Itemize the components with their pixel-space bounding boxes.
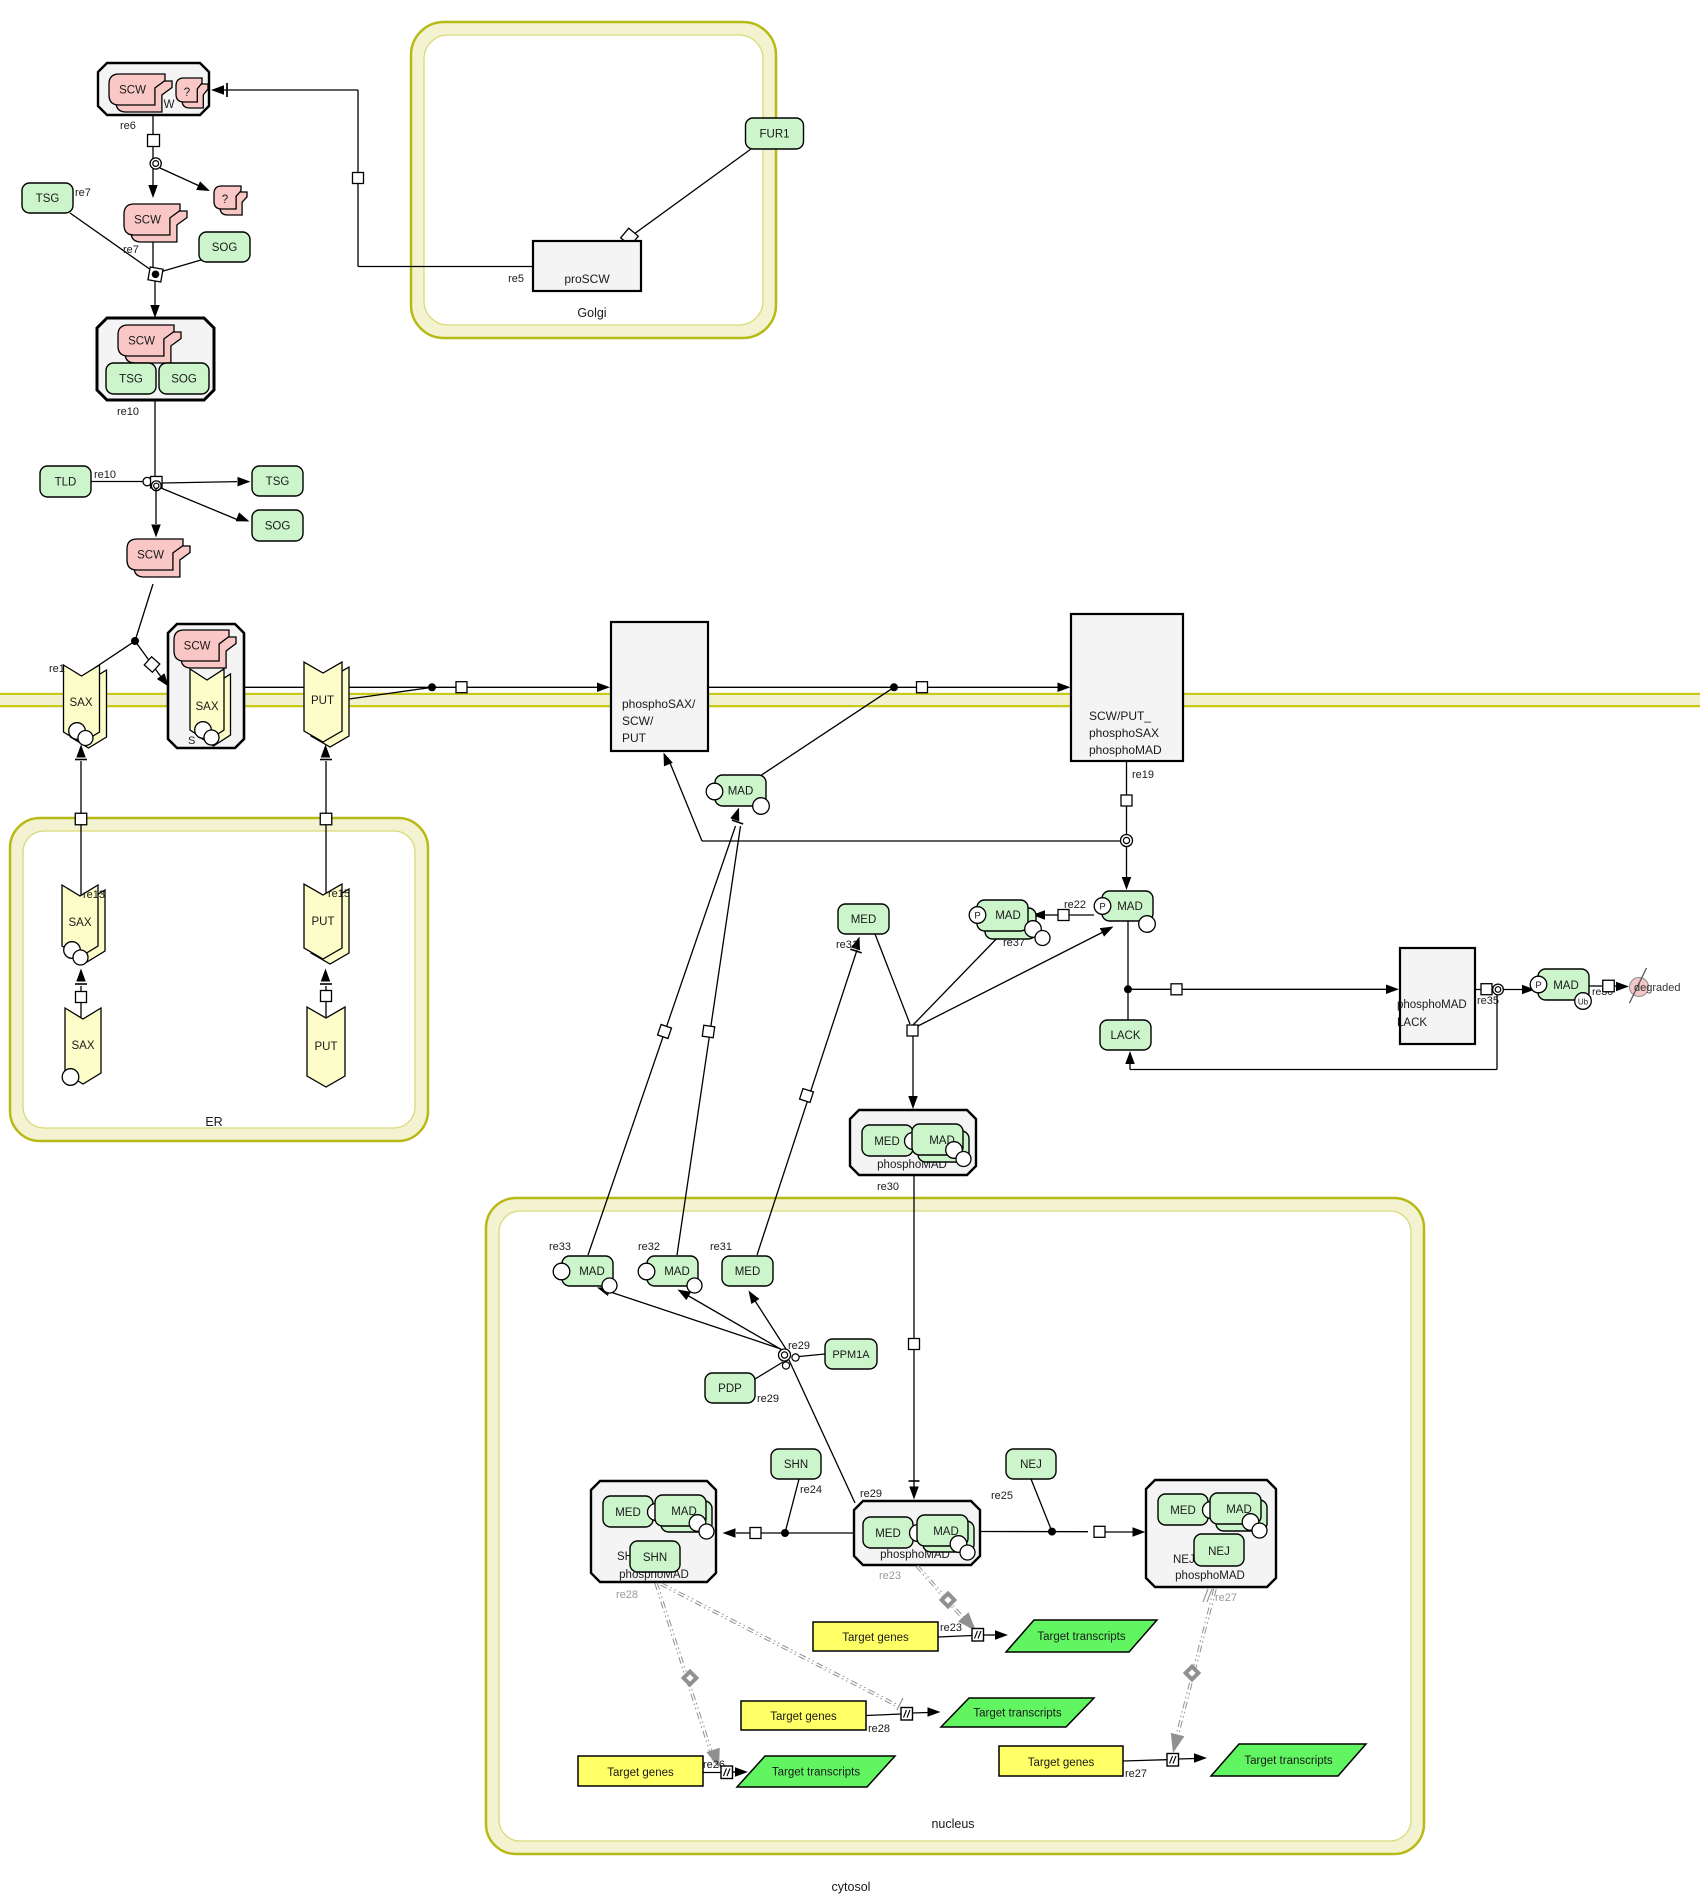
species TLD: [40, 466, 91, 497]
receptor PUT at membrane (dimer): [311, 667, 349, 747]
complex SCW/PUT_phosphoSAX_phosphoMAD: [1071, 614, 1183, 761]
dissociation circle re6: [150, 158, 161, 169]
svg-text:SCW: SCW: [137, 550, 164, 562]
complex SCW_SAX at membrane: [168, 624, 244, 748]
svg-text:re28: re28: [616, 1589, 638, 1601]
svg-text:SCW: SCW: [128, 336, 155, 348]
protein unknown (released): [220, 192, 247, 215]
receptor PUT in ER (single): [307, 1007, 345, 1087]
svg-text:LACK: LACK: [1397, 1017, 1427, 1029]
svg-text:re7: re7: [75, 187, 91, 199]
dissociation circle re29: [779, 1349, 791, 1361]
svg-text:SHN: SHN: [784, 1459, 808, 1471]
svg-text:re32: re32: [638, 1241, 660, 1253]
wire re19 recycle to phosphoSAX/SCW/PUT: [702, 840, 1121, 842]
svg-text:PUT: PUT: [622, 731, 647, 745]
wire re27 transcription activation: [1173, 1589, 1214, 1748]
wire FUR1 catalysis re5: [634, 149, 751, 234]
wire re35 dissociation to ubiquitinated MAD: [1475, 989, 1492, 991]
wire re23 gene to transcript: [938, 1636, 972, 1638]
species NEJ: [1006, 1449, 1056, 1479]
svg-text:re31: re31: [836, 939, 858, 951]
wire re28 transcription activation: [660, 1585, 897, 1707]
wire re10 dissociation: [154, 400, 156, 476]
svg-text:NEJ: NEJ: [1020, 1459, 1042, 1471]
complex phosphoMAD cytosol (MED/MAD): [850, 1110, 976, 1175]
species SOG: [199, 232, 250, 262]
protein SCW homodimer in re6 complex: [116, 81, 172, 112]
svg-text:PUT: PUT: [311, 695, 334, 707]
complex phosphoMAD_LACK box: [1400, 948, 1475, 1044]
species MAD nuclear re32: [647, 1256, 698, 1286]
wire re15 PUT transport in ER: [325, 1002, 327, 1017]
svg-text:ER: ER: [205, 1115, 222, 1129]
wire re26 gene to transcript: [703, 1772, 721, 1774]
complex phosphoMAD nuclear central: [854, 1501, 980, 1565]
svg-text:?: ?: [184, 87, 190, 99]
receptor PUT in ER (dimer): [311, 889, 349, 964]
svg-text:MED: MED: [1170, 1505, 1196, 1517]
gene Target genes re23: [813, 1622, 938, 1651]
rna Target transcripts re27: [1211, 1744, 1366, 1776]
wire re29 dissociation hub: [789, 1360, 855, 1503]
svg-text:PUT: PUT: [315, 1041, 338, 1053]
complex NEJ_phosphoMAD nuclear: [1146, 1480, 1276, 1587]
wire re25 NEJ association: [980, 1531, 1088, 1533]
label re27 grey: [1203, 1589, 1208, 1602]
wire re6 to unknown protein: [160, 168, 206, 189]
junction node re1: [131, 637, 139, 645]
degraded symbol: [1630, 978, 1649, 997]
wire PUT reactant: [342, 687, 432, 700]
protein SCW homodimer (cleaved): [134, 546, 190, 577]
wire re5 proSCW to SCW complex: [358, 266, 533, 268]
wire re34 to phosphoMAD_LACK box: [1128, 988, 1386, 990]
svg-text:SAX: SAX: [71, 1040, 94, 1052]
gene Target genes re27: [999, 1746, 1123, 1776]
svg-text:SAX: SAX: [68, 917, 91, 929]
species TSG: [22, 183, 73, 213]
wire re24 SHN association: [761, 1532, 854, 1534]
svg-text:SCW/: SCW/: [622, 714, 654, 728]
svg-text:P: P: [974, 910, 980, 921]
svg-text:LACK: LACK: [1110, 1030, 1140, 1042]
svg-text:re29: re29: [860, 1488, 882, 1500]
svg-text:Target transcripts: Target transcripts: [1244, 1755, 1332, 1767]
wire re19 dissociation from SCW/PUT complex: [1126, 761, 1128, 835]
svg-text:Target genes: Target genes: [842, 1632, 909, 1644]
wire re14 PUT transport ER to membrane: [325, 825, 327, 894]
species PPM1A: [825, 1339, 877, 1369]
wire re31 nuclear MED export: [757, 950, 857, 1255]
wire re27 gene to transcript: [1123, 1760, 1167, 1761]
svg-text:MED: MED: [875, 1528, 901, 1540]
svg-text:Target genes: Target genes: [770, 1711, 837, 1723]
wire re16 complex+PUT to phosphoSAX/SCW/PUT: [244, 686, 597, 688]
svg-text:re37: re37: [1003, 937, 1025, 949]
compartment Golgi: [411, 22, 776, 338]
svg-text:re5: re5: [508, 273, 524, 285]
svg-text:TSG: TSG: [36, 193, 60, 205]
wire re1 to SCW_SAX complex: [135, 641, 164, 681]
svg-text:re25: re25: [991, 1490, 1013, 1502]
protein unknown in re6 complex: [182, 84, 208, 108]
species MED cytosol: [838, 904, 889, 934]
svg-text:phosphoSAX: phosphoSAX: [1089, 726, 1159, 740]
wire re28 gene to transcript: [866, 1714, 901, 1716]
svg-text:re1: re1: [49, 663, 65, 675]
svg-text:proSCW: proSCW: [564, 272, 610, 286]
svg-text:MAD: MAD: [1553, 980, 1579, 992]
wire PPM1A catalysis re29: [799, 1354, 825, 1357]
species SHN: [771, 1449, 821, 1479]
svg-text:Ub: Ub: [1578, 997, 1589, 1006]
membrane (cytosol top border / plasma membrane): [0, 693, 1700, 695]
species PDP: [705, 1373, 755, 1403]
receptor SAX in ER (dimer): [69, 890, 105, 962]
wire re26 transcription activation: [655, 1583, 713, 1761]
association glyph re7: [148, 267, 163, 282]
svg-text:re10: re10: [94, 469, 116, 481]
compartment nucleus: [486, 1198, 1424, 1854]
svg-text:SAX: SAX: [69, 697, 92, 709]
species MAD nuclear re33: [562, 1256, 613, 1286]
svg-text:SOG: SOG: [171, 374, 197, 386]
svg-text:Target transcripts: Target transcripts: [772, 1767, 860, 1779]
species MED nuclear: [722, 1256, 773, 1286]
species TSG product: [252, 466, 303, 496]
svg-text:phosphoMAD: phosphoMAD: [1397, 999, 1467, 1011]
species proSCW: [533, 241, 641, 291]
wire re10 to SOG: [161, 488, 237, 520]
compartment ER: [10, 818, 428, 1141]
svg-text:PUT: PUT: [312, 916, 335, 928]
svg-text:re6: re6: [120, 120, 136, 132]
svg-text:Target genes: Target genes: [1028, 1757, 1095, 1769]
svg-text:Target transcripts: Target transcripts: [973, 1708, 1061, 1720]
wire re23 transcription activation: [916, 1567, 970, 1628]
catalysis circle TLD: [143, 477, 151, 485]
svg-text:FUR1: FUR1: [759, 129, 789, 141]
wire re6 complex dissociation: [152, 115, 154, 196]
wire re10 to TSG: [162, 482, 237, 483]
svg-text:MAD: MAD: [728, 786, 754, 798]
rna Target transcripts re23: [1006, 1620, 1157, 1652]
svg-text:re35: re35: [1477, 995, 1499, 1007]
receptor SAX in ER (single): [65, 1008, 101, 1084]
wire PDP catalysis re29: [755, 1362, 783, 1379]
svg-text:phosphoSAX/: phosphoSAX/: [622, 697, 696, 711]
species LACK: [1100, 1020, 1151, 1050]
complex re10 SCW/TSG/SOG: [97, 318, 214, 400]
svg-text:TLD: TLD: [55, 477, 77, 489]
wire re30 complex into nucleus: [913, 1175, 915, 1487]
svg-text:re15: re15: [328, 888, 350, 900]
svg-text:nucleus: nucleus: [931, 1817, 974, 1831]
svg-text:S: S: [188, 735, 195, 747]
svg-text:re7: re7: [123, 244, 139, 256]
transport arrow into cytosol MAD: [730, 808, 739, 822]
svg-text:re31: re31: [710, 1241, 732, 1253]
wire re30 association MED + phosphoMAD: [875, 934, 910, 1024]
svg-text:re23: re23: [879, 1570, 901, 1582]
protein SCW homodimer in membrane complex: [181, 637, 236, 668]
svg-text:NEJ: NEJ: [1208, 1546, 1230, 1558]
species SOG product: [252, 510, 303, 541]
svg-text:SCW: SCW: [184, 641, 211, 653]
svg-text:SHN: SHN: [643, 1552, 667, 1564]
process node re10: [151, 476, 163, 488]
svg-text:MAD: MAD: [995, 910, 1021, 922]
svg-text:PDP: PDP: [718, 1383, 742, 1395]
species TSG in complex: [106, 363, 156, 394]
svg-text:SCW/PUT_: SCW/PUT_: [1089, 709, 1151, 723]
gene Target genes re28: [741, 1701, 866, 1730]
svg-text:MED: MED: [735, 1266, 761, 1278]
svg-text:MED: MED: [874, 1136, 900, 1148]
wire re35 recycle to LACK: [1496, 995, 1498, 1070]
svg-text:MAD: MAD: [1117, 901, 1143, 913]
svg-text:SAX: SAX: [195, 701, 218, 713]
svg-text:re28: re28: [868, 1723, 890, 1735]
svg-text:SCW: SCW: [119, 85, 146, 97]
unknown-catalysis glyph re5: [621, 228, 639, 246]
svg-text:phosphoMAD: phosphoMAD: [1175, 1570, 1245, 1582]
rna Target transcripts re26: [737, 1756, 895, 1787]
species MAD cytosol: [715, 775, 766, 806]
species ubiquitinated phosphoMAD: [1538, 969, 1589, 1000]
svg-text:cytosol: cytosol: [832, 1880, 871, 1894]
protein SCW homodimer (free): [131, 211, 187, 242]
dissociation circle re35: [1493, 984, 1504, 995]
wire phosphoMAD to re34 node: [1127, 921, 1129, 1020]
gene Target genes re26: [578, 1756, 703, 1786]
protein SCW homodimer in re10 complex: [125, 332, 181, 363]
junction node re17: [890, 683, 898, 691]
wire re12 SAX transport ER to membrane: [80, 825, 82, 895]
svg-text:Target transcripts: Target transcripts: [1037, 1631, 1125, 1643]
svg-text:re27: re27: [1125, 1768, 1147, 1780]
svg-text:SCW: SCW: [134, 215, 161, 227]
svg-text:re19: re19: [1132, 769, 1154, 781]
svg-text:re30: re30: [877, 1181, 899, 1193]
svg-text:re24: re24: [800, 1484, 822, 1496]
wire re36 degradation: [1589, 985, 1604, 987]
receptor SAX at membrane (dimer): [71, 670, 107, 748]
species phosphoMAD homodimer: [985, 908, 1036, 939]
wire SCW to re1 node: [135, 584, 153, 641]
complex phosphoSAX/SCW/PUT: [611, 622, 708, 751]
junction node re34: [1124, 985, 1132, 993]
svg-text:MED: MED: [851, 914, 877, 926]
wire re13 SAX transport in ER: [80, 1003, 82, 1018]
species phosphoMAD single: [1102, 891, 1153, 921]
junction node re16: [428, 683, 436, 691]
svg-text:re23: re23: [940, 1622, 962, 1634]
svg-text:TSG: TSG: [119, 374, 143, 386]
svg-text:P: P: [1535, 980, 1541, 991]
wire re33 nuclear MAD export: [588, 826, 736, 1255]
wire re17 phosphoSAX/SCW/PUT + MAD to SCW/PUT complex: [708, 686, 1058, 688]
wire re32 nuclear MAD export: [677, 826, 741, 1255]
rna Target transcripts re28: [941, 1698, 1094, 1727]
wire re10 to SCW: [155, 488, 157, 524]
svg-text:re10: re10: [117, 406, 139, 418]
species SOG in complex: [159, 363, 209, 394]
svg-text:P: P: [1099, 901, 1105, 912]
svg-text:re13: re13: [83, 889, 105, 901]
dissociation circle re19: [1121, 835, 1133, 847]
svg-text:re29: re29: [788, 1340, 810, 1352]
svg-text:MAD: MAD: [579, 1266, 605, 1278]
svg-text:re33: re33: [549, 1241, 571, 1253]
receptor SAX in complex (dimer): [197, 674, 231, 746]
svg-text:TSG: TSG: [266, 476, 290, 488]
svg-text:W: W: [164, 99, 175, 111]
complex SHN_phosphoMAD nuclear: [591, 1481, 716, 1582]
svg-text:re22: re22: [1064, 899, 1086, 911]
wire re19 product phosphoMAD: [1126, 846, 1128, 878]
species FUR1: [746, 118, 804, 149]
svg-text:Target genes: Target genes: [607, 1767, 674, 1779]
svg-text:MED: MED: [615, 1507, 641, 1519]
svg-text:?: ?: [222, 194, 228, 206]
complex re6 SCW/unknown: [98, 63, 209, 115]
svg-text:degraded: degraded: [1634, 982, 1681, 994]
svg-text:re29: re29: [757, 1393, 779, 1405]
svg-text:PPM1A: PPM1A: [832, 1349, 870, 1361]
wire TLD catalysis re10: [91, 481, 143, 483]
svg-text:SOG: SOG: [212, 242, 238, 254]
svg-text:MAD: MAD: [664, 1266, 690, 1278]
wire MAD to re17: [760, 687, 894, 776]
svg-text:Golgi: Golgi: [577, 306, 606, 320]
svg-text:SOG: SOG: [265, 521, 291, 533]
svg-text:NEJ: NEJ: [1173, 1554, 1195, 1566]
svg-text:re27: re27: [1215, 1592, 1237, 1604]
wire re22 phosphoMAD dimerisation: [1069, 914, 1094, 916]
wire re7 association: [70, 213, 151, 270]
svg-text:phosphoMAD: phosphoMAD: [1089, 743, 1162, 757]
wire re1 to SAX: [84, 641, 135, 675]
